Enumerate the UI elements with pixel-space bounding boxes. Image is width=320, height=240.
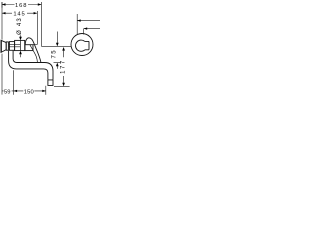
extension outlet bottom [54, 86, 70, 88]
svg-text:168: 168 [15, 3, 27, 9]
side dim line 2 [84, 28, 100, 30]
svg-text:59: 59 [4, 89, 11, 95]
side dim bar 2 [83, 29, 85, 35]
extension spout top edge [54, 62, 61, 64]
svg-text:145: 145 [13, 12, 25, 18]
arrow right 145 [34, 12, 38, 14]
extension line left (x=2) top [1, 2, 3, 40]
svg-text:150: 150 [24, 89, 34, 95]
union top line [33, 44, 37, 46]
arrow up to body bottom [19, 51, 22, 55]
dome cap and swivel sweep outer curve [25, 38, 41, 63]
dim 75 top arrow [56, 32, 58, 44]
svg-text:177: 177 [60, 59, 66, 74]
arrow left 168 [2, 3, 6, 5]
side view inner pipe C [75, 40, 84, 51]
side dim bar 1 [76, 14, 78, 34]
dimension 168 line [2, 2, 42, 46]
dim 177 line bottom [63, 76, 65, 83]
centerline [42, 46, 72, 48]
handle collar [6, 42, 8, 50]
dim 75 bottom arrow [56, 63, 59, 67]
swivel sweep curve inner [30, 45, 38, 63]
arrow left 150 [14, 90, 18, 92]
dim 177 bottom arrow [62, 83, 65, 87]
extension line left (x=2) bottom [1, 54, 3, 95]
side dim line 1 [77, 20, 100, 22]
svg-text:75: 75 [51, 49, 57, 58]
dim 150 line [14, 90, 46, 92]
svg-text:Ø 43: Ø 43 [17, 17, 23, 35]
arrow down to body top [20, 35, 22, 37]
spout inner edge [13, 51, 53, 80]
cartridge ribbed section [9, 42, 14, 51]
handle cap edge [0, 40, 2, 52]
outlet aerator [48, 80, 53, 86]
dim 177 top arrow [62, 47, 65, 51]
arrow left 145 [2, 12, 6, 14]
arrow right 168 [38, 3, 42, 5]
side view outer circle [71, 34, 93, 56]
body divider [19, 40, 21, 50]
spout outer edge [9, 51, 48, 80]
bottom dim bars [13, 70, 15, 95]
arrow right 150 [42, 90, 46, 92]
body cylinder [15, 40, 25, 50]
handle cone [1, 40, 6, 52]
dimension 145 line [2, 11, 37, 44]
dim 59 line stubs [2, 90, 14, 92]
wall union block [25, 45, 33, 51]
